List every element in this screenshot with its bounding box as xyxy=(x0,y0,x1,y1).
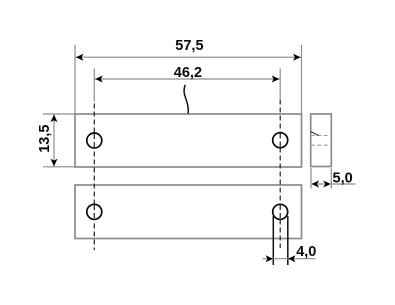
extension line bottom for 13,5 xyxy=(43,166,75,168)
arrow 46,2 left xyxy=(95,76,103,83)
dimension line 5,0 tail right xyxy=(331,183,355,185)
hole bottom-right xyxy=(273,204,288,219)
hole top-right centerline segment xyxy=(279,134,281,148)
arrow 57,5 right xyxy=(293,54,301,61)
centerline right (dash) xyxy=(279,100,281,249)
bottom plate (front view) xyxy=(75,185,302,239)
arrow 5,0 left xyxy=(312,181,320,188)
dimension line 13,5 xyxy=(53,115,55,167)
hole top-right xyxy=(273,133,288,148)
tangent extension line right for 4,0 xyxy=(287,216,289,265)
svg-text:5,0: 5,0 xyxy=(333,170,353,186)
extension line right for 5,0 xyxy=(330,168,332,189)
svg-text:13,5: 13,5 xyxy=(37,125,53,153)
top plate (front view) xyxy=(75,114,302,167)
hole top-left xyxy=(87,133,102,148)
svg-text:4,0: 4,0 xyxy=(296,244,316,260)
side view hidden hole dashed lines xyxy=(311,135,332,137)
arrow 13,5 top xyxy=(51,115,58,123)
extension line right x301.5 xyxy=(301,45,303,114)
dimension line 57,5 xyxy=(76,56,302,58)
side view chamfer line xyxy=(311,132,319,136)
dimension line 5,0 between arrows xyxy=(318,183,324,185)
side view plate xyxy=(311,114,332,167)
hole top-left centerline segment xyxy=(93,134,95,147)
arrow 5,0 right xyxy=(323,181,331,188)
arrow 4,0 right xyxy=(288,255,296,262)
hole bottom-left centerline segment xyxy=(93,205,95,219)
dimension line 46,2 xyxy=(95,78,280,80)
svg-text:46,2: 46,2 xyxy=(174,65,202,81)
hole bottom-right centerline segment xyxy=(279,205,281,219)
dimension line 4,0 xyxy=(263,258,316,260)
cable squiggle on top plate xyxy=(184,85,188,114)
arrow 13,5 bottom xyxy=(51,159,58,167)
centerline left (dash) xyxy=(93,104,95,251)
tangent extension line left for 4,0 xyxy=(272,216,274,265)
extension line left for 5,0 xyxy=(310,168,312,189)
hole bottom-left xyxy=(87,204,102,219)
extension line x94.3 for 46,2 xyxy=(93,69,95,102)
extension line x280.2 for 46,2 xyxy=(279,69,281,100)
arrow 57,5 left xyxy=(76,54,84,61)
arrow 4,0 left xyxy=(266,255,274,262)
extension line top for 13,5 xyxy=(43,113,75,115)
extension line left x75 xyxy=(74,45,76,114)
svg-text:57,5: 57,5 xyxy=(175,38,203,54)
arrow 46,2 right xyxy=(272,76,280,83)
